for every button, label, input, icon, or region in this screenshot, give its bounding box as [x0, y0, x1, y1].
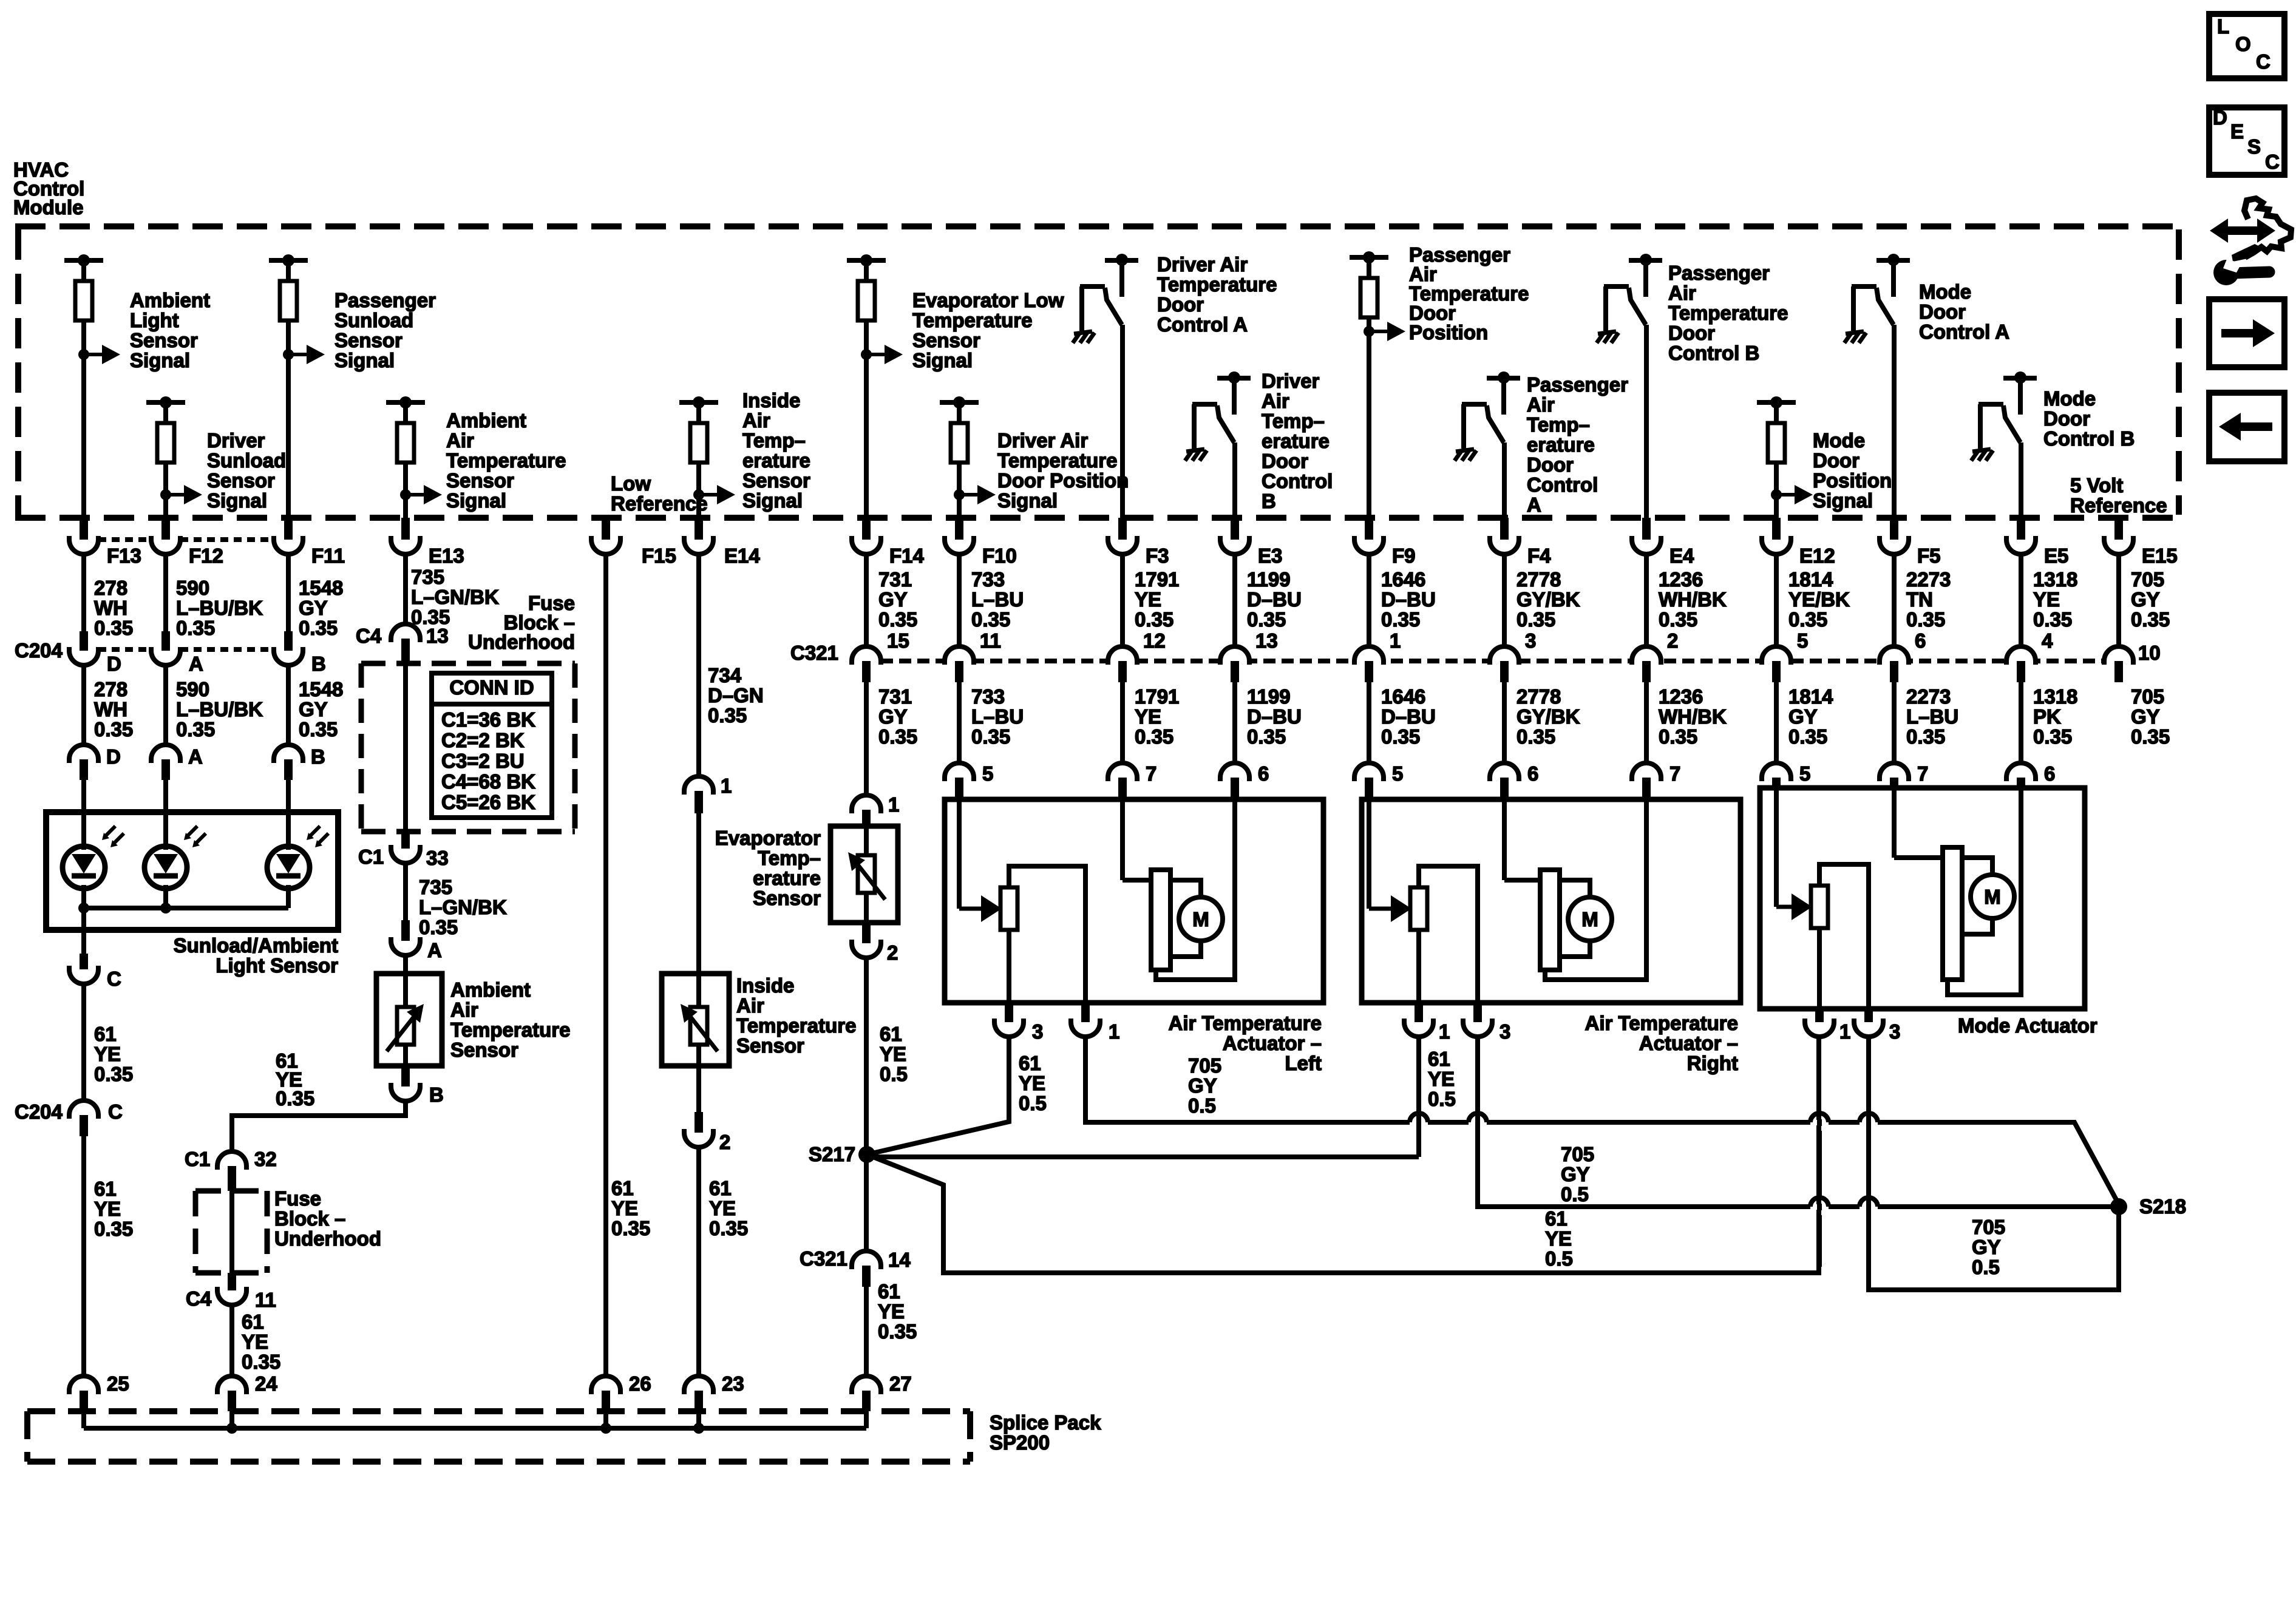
- module pin E13: [401, 518, 410, 540]
- connector C321 pin 11 (F10): [957, 553, 962, 646]
- LOC icon box: [2209, 14, 2284, 78]
- svg-text:F5: F5: [1917, 544, 1941, 567]
- connector C4 pin 13 (E13): [403, 553, 408, 624]
- right actuator pin 3 cup: [1473, 1003, 1482, 1022]
- svg-text:0.35: 0.35: [709, 1217, 748, 1239]
- svg-text:2778: 2778: [1517, 568, 1561, 591]
- svg-text:F13: F13: [107, 544, 141, 567]
- svg-text:Air: Air: [1668, 282, 1696, 304]
- svg-text:26: 26: [629, 1372, 651, 1395]
- left arrow icon box: [2209, 393, 2284, 461]
- svg-text:Ambient: Ambient: [450, 978, 531, 1001]
- thermistor (evaporator temp sensor): [858, 855, 875, 893]
- wire F15 low reference down: [603, 553, 608, 1376]
- svg-text:YE/BK: YE/BK: [1788, 588, 1850, 611]
- evaporator sensor pin 2 cup: [862, 923, 871, 943]
- svg-text:0.5: 0.5: [1972, 1256, 2000, 1278]
- svg-text:C: C: [2256, 50, 2271, 73]
- switch F3 (Driver Air Temperature Door Control A): [1105, 258, 1138, 263]
- svg-text:YE: YE: [878, 1300, 905, 1323]
- svg-text:Air: Air: [736, 994, 764, 1017]
- svg-text:Mode Actuator: Mode Actuator: [1958, 1014, 2097, 1037]
- svg-text:5: 5: [1797, 629, 1808, 652]
- svg-text:E12: E12: [1799, 544, 1835, 567]
- svg-text:Position: Position: [1409, 321, 1488, 344]
- svg-text:0.35: 0.35: [276, 1087, 314, 1110]
- svg-text:0.5: 0.5: [1545, 1247, 1573, 1270]
- svg-text:L–GN/BK: L–GN/BK: [419, 896, 507, 918]
- resistor F9 (Passenger Air Temperature Door Position): [1350, 255, 1388, 260]
- module pin E5: [2017, 518, 2025, 540]
- svg-text:0.35: 0.35: [878, 608, 917, 631]
- svg-text:0.5: 0.5: [1561, 1183, 1589, 1205]
- svg-text:D–GN: D–GN: [708, 684, 764, 707]
- svg-text:1236: 1236: [1659, 568, 1703, 591]
- connector C1 pin 33 (E13): [401, 833, 410, 849]
- connector C321 pin 5 (E12): [1774, 553, 1779, 646]
- wire right actuator pin1 to S217 branch: [1416, 1037, 1421, 1157]
- svg-text:Sensor: Sensor: [736, 1034, 804, 1057]
- svg-text:27: 27: [889, 1372, 912, 1395]
- svg-text:1: 1: [721, 775, 732, 797]
- svg-text:13: 13: [1255, 629, 1278, 652]
- left actuator pin 1 cup: [1081, 1003, 1090, 1022]
- svg-text:0.35: 0.35: [878, 725, 917, 748]
- svg-text:B: B: [429, 1083, 444, 1106]
- svg-text:1199: 1199: [1247, 568, 1291, 591]
- svg-text:0.35: 0.35: [1659, 725, 1697, 748]
- svg-text:1548: 1548: [299, 678, 343, 700]
- wire from sensor box down: [81, 908, 86, 930]
- module pin E4: [1642, 518, 1651, 540]
- svg-text:A: A: [189, 653, 203, 675]
- sunload sensor pin A dome: [163, 665, 168, 745]
- svg-text:61: 61: [878, 1280, 900, 1303]
- connector C321 pin 3 (F4): [1502, 553, 1507, 646]
- svg-text:Sensor: Sensor: [912, 329, 980, 351]
- wire left actuator pin1 down: [1085, 1037, 2119, 1204]
- svg-text:L–BU: L–BU: [971, 705, 1024, 728]
- svg-text:Evaporator Low: Evaporator Low: [912, 289, 1064, 311]
- svg-text:Sensor: Sensor: [335, 329, 402, 351]
- ambient air temp sensor pin A cup: [401, 920, 410, 941]
- svg-text:YE: YE: [611, 1197, 638, 1219]
- svg-text:0.35: 0.35: [1135, 608, 1173, 631]
- module pin F14: [862, 518, 871, 540]
- svg-text:0.35: 0.35: [1906, 725, 1945, 748]
- fuse block underhood dashed box 1: [361, 663, 575, 832]
- svg-text:0.35: 0.35: [1906, 608, 1945, 631]
- wire S218 to mode pin 3: [1869, 1037, 2119, 1290]
- svg-text:Signal: Signal: [912, 349, 973, 371]
- svg-text:Splice Pack: Splice Pack: [990, 1411, 1101, 1434]
- evaporator temp sensor pin 1 dome: [864, 682, 869, 795]
- svg-text:Reference: Reference: [611, 492, 708, 515]
- svg-text:0.5: 0.5: [1188, 1094, 1216, 1117]
- wire S217 to mode pin 1: [867, 1037, 1819, 1273]
- svg-text:L: L: [2217, 15, 2229, 38]
- svg-text:7: 7: [1917, 762, 1928, 785]
- svg-text:11: 11: [980, 629, 1001, 652]
- svg-text:0.35: 0.35: [2033, 725, 2072, 748]
- svg-text:1199: 1199: [1247, 685, 1291, 708]
- svg-text:Door: Door: [1262, 450, 1308, 472]
- svg-text:6: 6: [1258, 762, 1269, 785]
- module pin E3: [1231, 518, 1239, 540]
- actuator input pin 5 (F10): [957, 682, 962, 763]
- svg-text:E: E: [2230, 120, 2244, 143]
- svg-text:Underhood: Underhood: [468, 631, 575, 653]
- svg-text:E14: E14: [724, 544, 760, 567]
- svg-text:Door: Door: [1813, 449, 1860, 472]
- Sunload/Ambient Light Sensor box: [46, 812, 338, 930]
- svg-text:Signal: Signal: [207, 489, 267, 512]
- svg-text:Actuator –: Actuator –: [1223, 1032, 1322, 1054]
- svg-text:2: 2: [1667, 629, 1678, 652]
- svg-text:GY/BK: GY/BK: [1517, 588, 1580, 611]
- svg-text:1318: 1318: [2033, 568, 2077, 591]
- photodiode bus: [81, 885, 86, 908]
- splice pack pin 23: [684, 1376, 713, 1394]
- wire jog from pin B to fuse block 2: [403, 1101, 408, 1113]
- svg-text:C1: C1: [185, 1148, 210, 1170]
- svg-text:A: A: [427, 939, 442, 961]
- svg-text:WH: WH: [94, 597, 127, 619]
- svg-text:32: 32: [254, 1148, 277, 1170]
- svg-text:Underhood: Underhood: [274, 1227, 381, 1250]
- HVAC Control Module dashed box: [15, 226, 2179, 518]
- svg-text:Sensor: Sensor: [130, 329, 198, 351]
- svg-text:3: 3: [1525, 629, 1536, 652]
- svg-text:YE: YE: [94, 1043, 121, 1065]
- svg-text:GY: GY: [1972, 1236, 2001, 1258]
- svg-text:1791: 1791: [1135, 568, 1179, 591]
- svg-text:GY: GY: [878, 705, 908, 728]
- svg-text:7: 7: [1146, 762, 1156, 785]
- svg-text:Driver: Driver: [1262, 370, 1320, 392]
- svg-text:B: B: [1262, 490, 1276, 512]
- resistor F11 (high): [269, 258, 308, 263]
- svg-text:0.35: 0.35: [94, 1063, 133, 1085]
- svg-text:3: 3: [1889, 1020, 1900, 1043]
- svg-text:Mode: Mode: [2043, 387, 2096, 410]
- svg-text:731: 731: [878, 568, 912, 591]
- svg-text:Fuse: Fuse: [274, 1187, 321, 1210]
- svg-text:Temperature: Temperature: [446, 449, 566, 472]
- svg-text:E4: E4: [1669, 544, 1694, 567]
- switch E5 (Mode Door Control B): [2003, 376, 2037, 381]
- svg-text:Sunload: Sunload: [207, 449, 286, 472]
- resistor F10 (low): [940, 400, 979, 405]
- svg-text:C321: C321: [790, 642, 838, 664]
- svg-text:YE: YE: [1135, 588, 1161, 611]
- connector C1 pin 32: [217, 1151, 246, 1170]
- svg-text:C5=26 BK: C5=26 BK: [441, 791, 535, 813]
- svg-text:Control A: Control A: [1157, 313, 1248, 336]
- actuator input pin 6 (E3): [1232, 682, 1237, 763]
- svg-text:S217: S217: [809, 1143, 855, 1165]
- svg-text:M: M: [1192, 908, 1209, 931]
- svg-text:C4: C4: [186, 1287, 212, 1310]
- svg-text:erature: erature: [1527, 433, 1595, 456]
- svg-text:Temperature: Temperature: [997, 449, 1117, 472]
- svg-text:0.5: 0.5: [880, 1063, 908, 1085]
- svg-text:Sensor: Sensor: [207, 469, 275, 492]
- right actuator pin 1 cup: [1415, 1003, 1423, 1022]
- svg-text:278: 278: [94, 678, 127, 700]
- switch E4 (Passenger Air Temperature Door Control B): [1629, 258, 1662, 263]
- module pin E15: [2114, 518, 2123, 540]
- svg-text:Control: Control: [1262, 470, 1333, 492]
- wire left actuator pin3 to S217: [867, 1037, 1009, 1154]
- svg-text:1548: 1548: [299, 577, 343, 599]
- svg-text:YE: YE: [709, 1197, 736, 1219]
- svg-text:Signal: Signal: [446, 489, 506, 512]
- sunload sensor pin D dome: [81, 665, 86, 745]
- module pin F11: [284, 518, 293, 540]
- svg-text:Sunload/Ambient: Sunload/Ambient: [174, 934, 338, 957]
- svg-text:erature: erature: [753, 867, 821, 889]
- svg-text:705: 705: [2131, 685, 2164, 708]
- svg-text:YE: YE: [1428, 1068, 1455, 1090]
- svg-text:A: A: [1527, 493, 1541, 516]
- svg-text:E5: E5: [2044, 544, 2068, 567]
- svg-text:6: 6: [2044, 762, 2055, 785]
- connector C321 pin 15 (F14): [864, 553, 869, 646]
- svg-text:0.35: 0.35: [1517, 725, 1555, 748]
- svg-text:D: D: [107, 653, 121, 675]
- connector C321 pin 14: [852, 1251, 881, 1269]
- svg-text:1318: 1318: [2033, 685, 2077, 708]
- signal arrow F11: [283, 349, 294, 360]
- svg-text:C2=2 BK: C2=2 BK: [441, 729, 525, 751]
- svg-text:Sensor: Sensor: [742, 469, 810, 492]
- svg-text:Position: Position: [1813, 469, 1892, 492]
- svg-text:F3: F3: [1146, 544, 1169, 567]
- splice pack pin 25: [69, 1376, 98, 1394]
- svg-text:Air: Air: [1262, 390, 1289, 412]
- svg-text:Control: Control: [1527, 473, 1598, 496]
- svg-text:61: 61: [709, 1177, 732, 1199]
- thermistor (inside air temp sensor): [690, 1007, 707, 1045]
- svg-text:YE: YE: [880, 1043, 906, 1065]
- svg-text:61: 61: [880, 1023, 902, 1045]
- switch E3 (Driver Air Temperature Door Control B): [1217, 376, 1251, 381]
- photodiode (F11 column): [267, 846, 310, 889]
- svg-text:61: 61: [1019, 1052, 1041, 1074]
- svg-text:1814: 1814: [1788, 568, 1833, 591]
- actuator input pin 5 (F9): [1367, 682, 1371, 763]
- svg-text:YE: YE: [94, 1198, 121, 1220]
- svg-text:1814: 1814: [1788, 685, 1833, 708]
- svg-text:GY: GY: [299, 597, 328, 619]
- svg-text:2778: 2778: [1517, 685, 1561, 708]
- thermistor (ambient air temp sensor): [397, 1007, 414, 1045]
- svg-text:5: 5: [1392, 762, 1403, 785]
- signal arrow E12: [1771, 489, 1782, 500]
- svg-text:erature: erature: [742, 449, 810, 472]
- svg-text:GY: GY: [299, 698, 328, 720]
- svg-text:0.35: 0.35: [176, 718, 215, 741]
- module pin F10: [955, 518, 963, 540]
- svg-text:0.35: 0.35: [1247, 725, 1286, 748]
- svg-text:WH: WH: [94, 698, 127, 720]
- svg-text:C4=68 BK: C4=68 BK: [441, 770, 535, 793]
- svg-text:GY: GY: [2131, 588, 2160, 611]
- connector C321 pin 13 (E3): [1232, 553, 1237, 646]
- resistor E14 (low): [679, 400, 718, 405]
- connector C4 pin 11: [228, 1273, 236, 1290]
- svg-text:Signal: Signal: [335, 349, 395, 371]
- wire through fuse block 1: [403, 663, 408, 833]
- svg-text:705: 705: [1188, 1054, 1221, 1077]
- switch F5 (Mode Door Control A): [1877, 258, 1910, 263]
- svg-text:705: 705: [2131, 568, 2164, 591]
- svg-text:Temperature: Temperature: [1668, 302, 1788, 324]
- svg-text:O: O: [2235, 33, 2251, 55]
- svg-text:F12: F12: [189, 544, 223, 567]
- svg-text:E13: E13: [429, 544, 464, 567]
- svg-text:Temp–: Temp–: [758, 847, 821, 869]
- svg-text:0.35: 0.35: [971, 725, 1010, 748]
- module pin F9: [1365, 518, 1373, 540]
- svg-text:705: 705: [1561, 1143, 1594, 1165]
- svg-text:M: M: [1984, 886, 2001, 908]
- wire to splice pin 25: [81, 1136, 86, 1376]
- svg-text:0.35: 0.35: [1788, 725, 1827, 748]
- svg-text:Mode: Mode: [1813, 429, 1865, 452]
- svg-text:Sensor: Sensor: [450, 1039, 518, 1061]
- CONN ID table: [432, 673, 552, 818]
- svg-text:GY/BK: GY/BK: [1517, 705, 1580, 728]
- svg-text:735: 735: [411, 566, 444, 588]
- mode actuator pin 3 cup: [1864, 1009, 1873, 1022]
- svg-text:YE: YE: [1135, 705, 1161, 728]
- svg-text:F11: F11: [311, 544, 345, 567]
- svg-text:D–BU: D–BU: [1381, 705, 1436, 728]
- svg-text:L–BU: L–BU: [971, 588, 1024, 611]
- svg-text:YE: YE: [1545, 1227, 1572, 1250]
- svg-text:Reference: Reference: [2070, 494, 2167, 517]
- svg-text:Control B: Control B: [2043, 427, 2135, 450]
- splice pack pin 24: [217, 1376, 246, 1394]
- wire to splice pin 27: [864, 1287, 869, 1376]
- svg-text:Ambient: Ambient: [446, 409, 526, 432]
- svg-text:E3: E3: [1258, 544, 1282, 567]
- signal arrow F10: [954, 489, 965, 500]
- wire to splice pin 23: [696, 1147, 701, 1376]
- wire evap to S217: [864, 958, 869, 1154]
- svg-text:2: 2: [719, 1131, 730, 1153]
- sensor pin C cup: [80, 954, 88, 969]
- resistor F12 (low): [146, 400, 185, 405]
- svg-text:2: 2: [887, 941, 898, 964]
- svg-text:F15: F15: [642, 544, 676, 567]
- svg-text:Sensor: Sensor: [753, 887, 821, 909]
- svg-text:61: 61: [1428, 1048, 1450, 1070]
- svg-text:L–BU: L–BU: [1906, 705, 1958, 728]
- svg-text:F9: F9: [1392, 544, 1416, 567]
- svg-text:B: B: [311, 745, 325, 768]
- actuator input pin 6 (E5): [2019, 682, 2023, 763]
- fuse block underhood dashed box 2: [195, 1191, 267, 1273]
- actuator input pin 6 (F4): [1502, 682, 1507, 763]
- svg-text:WH/BK: WH/BK: [1659, 588, 1727, 611]
- svg-text:L–BU/BK: L–BU/BK: [176, 698, 263, 720]
- left actuator pin 3 cup: [1005, 1003, 1013, 1022]
- svg-text:24: 24: [255, 1372, 277, 1395]
- svg-text:0.35: 0.35: [1381, 608, 1420, 631]
- svg-text:0.35: 0.35: [1517, 608, 1555, 631]
- wire S217 down to C321 pin 14: [864, 1154, 869, 1251]
- svg-text:13: 13: [426, 625, 449, 647]
- svg-text:YE: YE: [242, 1331, 268, 1353]
- svg-text:D–BU: D–BU: [1381, 588, 1436, 611]
- svg-text:Signal: Signal: [1813, 489, 1873, 512]
- svg-text:6: 6: [1527, 762, 1538, 785]
- svg-text:734: 734: [708, 664, 742, 686]
- svg-text:Temperature: Temperature: [1157, 273, 1277, 296]
- svg-text:B: B: [311, 653, 326, 675]
- svg-text:0.35: 0.35: [94, 617, 133, 639]
- svg-text:Right: Right: [1687, 1052, 1738, 1074]
- module pin F3: [1118, 518, 1127, 540]
- svg-text:Light: Light: [130, 309, 179, 331]
- actuator input pin 7 (E4): [1644, 682, 1649, 763]
- svg-text:Temp–: Temp–: [1262, 410, 1325, 432]
- svg-text:1: 1: [888, 793, 899, 816]
- svg-text:Air: Air: [450, 998, 478, 1021]
- svg-text:0.35: 0.35: [2033, 608, 2072, 631]
- module pin F12: [161, 518, 170, 540]
- svg-text:L–GN/BK: L–GN/BK: [411, 586, 499, 608]
- connector C204 pin C dome: [69, 1100, 98, 1119]
- Air Temperature Actuator - Right box: [1362, 799, 1741, 1003]
- svg-text:0.35: 0.35: [242, 1351, 280, 1373]
- svg-text:Door: Door: [1919, 300, 1966, 323]
- splice pack pin 26: [591, 1376, 620, 1394]
- Ambient Air Temperature Sensor box: [376, 974, 442, 1066]
- svg-text:Door: Door: [2043, 407, 2090, 430]
- svg-text:705: 705: [1972, 1216, 2005, 1238]
- svg-text:Block –: Block –: [274, 1207, 345, 1230]
- svg-text:61: 61: [242, 1310, 264, 1333]
- svg-text:5: 5: [1799, 762, 1810, 785]
- DESC icon box: [2209, 107, 2284, 175]
- svg-text:Control B: Control B: [1668, 342, 1759, 364]
- svg-text:590: 590: [176, 577, 209, 599]
- svg-text:C: C: [2265, 151, 2280, 173]
- connector C204 dashed line: [98, 647, 274, 652]
- svg-text:S218: S218: [2139, 1195, 2186, 1218]
- svg-text:Mode: Mode: [1919, 280, 1971, 303]
- svg-text:3: 3: [1500, 1020, 1510, 1043]
- svg-text:Temperature: Temperature: [450, 1019, 570, 1041]
- wire through fuse block 2: [229, 1191, 234, 1273]
- connector C321 pin 10 (E15): [2116, 553, 2121, 646]
- svg-text:0.35: 0.35: [176, 617, 215, 639]
- module pin F4: [1500, 518, 1509, 540]
- svg-text:733: 733: [971, 568, 1005, 591]
- svg-text:0.5: 0.5: [1019, 1092, 1047, 1114]
- svg-text:PK: PK: [2033, 705, 2061, 728]
- module pin F5: [1890, 518, 1898, 540]
- actuator input pin 5 (E12): [1774, 682, 1779, 763]
- svg-text:Actuator –: Actuator –: [1639, 1032, 1738, 1054]
- svg-text:6: 6: [1915, 629, 1926, 652]
- inside sensor pin 2 cup: [696, 1066, 701, 1112]
- connector C204 pin D cup: [81, 553, 86, 631]
